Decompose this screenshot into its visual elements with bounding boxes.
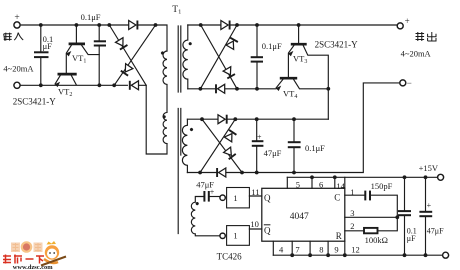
svg-text:1: 1: [233, 193, 237, 203]
svg-text:3: 3: [350, 208, 354, 218]
svg-text:μF: μF: [407, 234, 416, 243]
svg-text:4~20mA: 4~20mA: [401, 49, 432, 59]
svg-text:0.1μF: 0.1μF: [262, 41, 282, 51]
svg-text:47μF: 47μF: [427, 227, 444, 236]
svg-text:TC426: TC426: [217, 251, 243, 261]
svg-text:9: 9: [334, 244, 338, 254]
svg-text:C: C: [334, 192, 340, 202]
svg-text:+: +: [257, 133, 262, 142]
svg-text:47μF: 47μF: [264, 148, 282, 158]
svg-text:1: 1: [350, 187, 354, 197]
svg-text:1: 1: [233, 231, 237, 241]
svg-text:−: −: [407, 78, 412, 88]
svg-text:14: 14: [336, 181, 345, 191]
svg-text:150pF: 150pF: [371, 181, 393, 191]
svg-text:6: 6: [319, 179, 323, 189]
svg-text:Q: Q: [264, 226, 271, 236]
svg-text:4~20mA: 4~20mA: [3, 63, 34, 73]
svg-text:8: 8: [319, 244, 323, 254]
svg-text:12: 12: [351, 245, 360, 255]
svg-text:2: 2: [350, 221, 354, 231]
svg-text:2SC3421-Y: 2SC3421-Y: [13, 96, 57, 106]
svg-text:+15V: +15V: [419, 163, 439, 173]
svg-text:10: 10: [250, 219, 259, 229]
svg-text:+: +: [405, 16, 410, 26]
svg-text:2SC3421-Y: 2SC3421-Y: [315, 40, 359, 50]
svg-text:www.dzsc.com: www.dzsc.com: [13, 264, 53, 270]
svg-text:11: 11: [251, 187, 259, 197]
svg-text:+: +: [14, 13, 19, 23]
svg-text:0.1μF: 0.1μF: [305, 143, 325, 153]
svg-text:5: 5: [296, 179, 300, 189]
svg-text:R: R: [336, 231, 342, 241]
svg-text:μF: μF: [43, 41, 53, 51]
svg-text:4047: 4047: [290, 212, 309, 222]
svg-text:+: +: [427, 201, 432, 210]
svg-text:0.1μF: 0.1μF: [81, 12, 101, 22]
svg-text:+: +: [210, 187, 215, 196]
svg-text:7: 7: [295, 244, 299, 254]
svg-text:100kΩ: 100kΩ: [365, 235, 388, 245]
svg-text:Q: Q: [264, 193, 271, 203]
